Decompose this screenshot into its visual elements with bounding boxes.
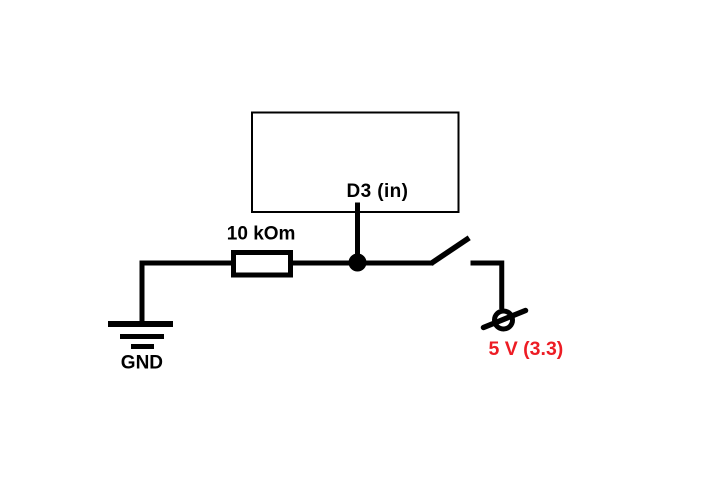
- svg-text:D3 (in): D3 (in): [347, 181, 409, 202]
- svg-text:10 kOm: 10 kOm: [227, 224, 296, 245]
- svg-text:GND: GND: [121, 353, 163, 374]
- svg-text:5 V (3.3): 5 V (3.3): [489, 338, 564, 360]
